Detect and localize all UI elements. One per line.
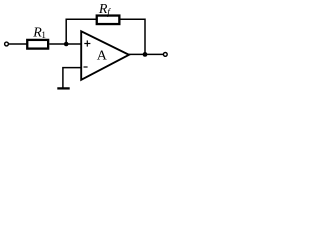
svg-text:1: 1 [41,31,46,41]
svg-text:A: A [97,48,108,63]
